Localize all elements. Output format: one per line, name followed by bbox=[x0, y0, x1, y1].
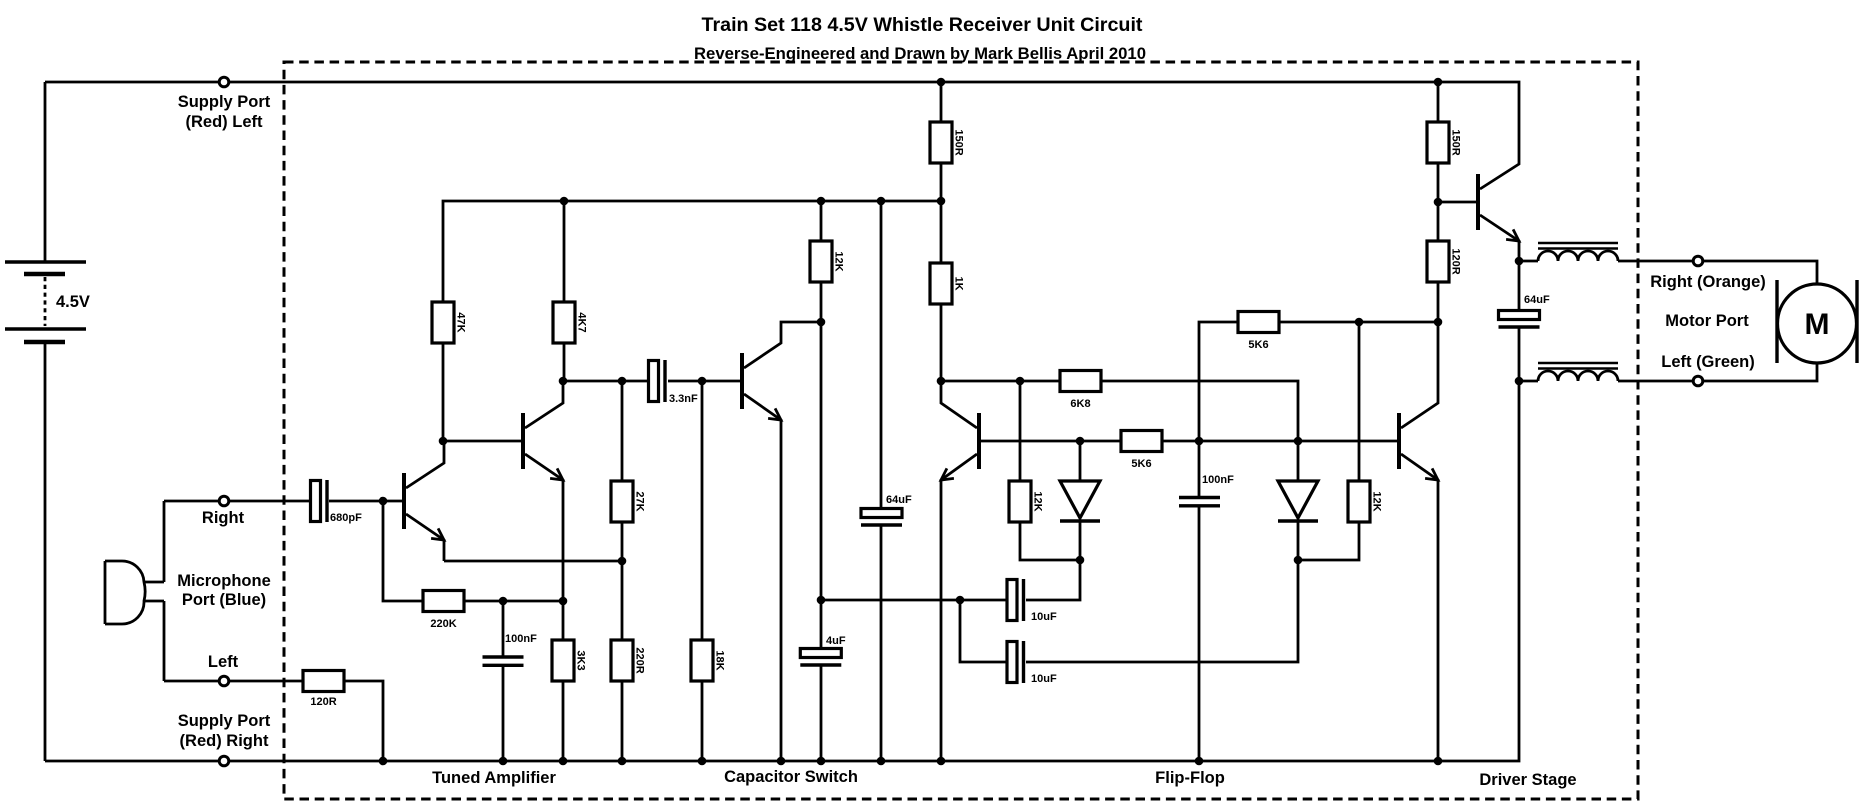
svg-text:18K: 18K bbox=[714, 650, 726, 670]
junction bbox=[698, 377, 707, 386]
junction bbox=[817, 596, 826, 605]
svg-text:Left: Left bbox=[208, 653, 239, 671]
wire bbox=[940, 304, 943, 381]
svg-text:10uF: 10uF bbox=[1031, 673, 1057, 685]
wire bbox=[1026, 521, 1080, 600]
svg-text:4.5V: 4.5V bbox=[56, 293, 90, 311]
junction bbox=[1515, 257, 1524, 266]
svg-text:Left (Green): Left (Green) bbox=[1661, 353, 1755, 371]
svg-text:Right (Orange): Right (Orange) bbox=[1650, 273, 1766, 291]
wire bbox=[44, 82, 47, 262]
resistor R6 220K bbox=[423, 591, 464, 631]
wire bbox=[163, 501, 166, 582]
wire bbox=[1618, 363, 1817, 381]
svg-text:10uF: 10uF bbox=[1031, 611, 1057, 623]
wire bbox=[820, 282, 823, 322]
wire bbox=[701, 381, 704, 640]
wire bbox=[820, 664, 823, 761]
wire bbox=[1437, 281, 1440, 322]
terminal Motor Left (Green) bbox=[1693, 376, 1703, 386]
junction bbox=[1434, 78, 1443, 87]
resistor R15 5K6 bbox=[1238, 312, 1279, 352]
svg-text:64uF: 64uF bbox=[886, 494, 912, 506]
capacitor C6 10uF bbox=[1007, 579, 1057, 623]
svg-text:27K: 27K bbox=[634, 491, 646, 511]
wire bbox=[563, 201, 566, 302]
terminal Microphone Right bbox=[219, 496, 229, 506]
wire bbox=[1198, 505, 1201, 761]
wire bbox=[1618, 261, 1817, 284]
wire bbox=[45, 381, 1519, 761]
junction bbox=[1076, 556, 1085, 565]
wire bbox=[940, 162, 943, 263]
wire bbox=[979, 440, 1121, 443]
wire bbox=[820, 322, 823, 648]
capacitor C9 64uF bbox=[1499, 294, 1550, 327]
wire bbox=[1162, 440, 1399, 443]
capacitor C5 64uF bbox=[861, 494, 912, 525]
svg-text:12K: 12K bbox=[1032, 491, 1044, 511]
junction bbox=[499, 757, 508, 766]
transistor Q4 bbox=[941, 381, 979, 761]
junction bbox=[877, 757, 886, 766]
svg-text:6K8: 6K8 bbox=[1070, 398, 1090, 410]
wire bbox=[1297, 441, 1300, 481]
resistor R18 120R bbox=[1427, 241, 1462, 282]
wire bbox=[443, 201, 941, 302]
junction bbox=[1294, 556, 1303, 565]
junction bbox=[1515, 377, 1524, 386]
wire bbox=[45, 82, 1519, 163]
wire bbox=[383, 501, 423, 601]
junction bbox=[937, 757, 946, 766]
terminal Supply Port (Red) Right bbox=[219, 756, 229, 766]
capacitor C1 680pF bbox=[311, 480, 363, 524]
wire bbox=[1199, 322, 1238, 497]
junction bbox=[1076, 437, 1085, 446]
wire bbox=[1079, 441, 1082, 481]
wire bbox=[442, 343, 445, 441]
terminal Microphone Left bbox=[219, 676, 229, 686]
terminal Supply Port (Red) Left bbox=[219, 77, 229, 87]
svg-text:100nF: 100nF bbox=[505, 633, 537, 645]
wire bbox=[164, 500, 310, 503]
wire bbox=[941, 380, 1060, 383]
svg-text:4uF: 4uF bbox=[826, 635, 846, 647]
junction bbox=[499, 597, 508, 606]
capacitor C7 10uF bbox=[1007, 641, 1057, 685]
junction bbox=[559, 597, 568, 606]
battery 4.5V bbox=[5, 262, 90, 342]
junction bbox=[817, 757, 826, 766]
wire bbox=[563, 343, 566, 381]
junction bbox=[618, 377, 627, 386]
wire bbox=[562, 601, 565, 640]
capacitor C8 100nF bbox=[1179, 474, 1234, 506]
svg-text:Flip-Flop: Flip-Flop bbox=[1155, 769, 1225, 787]
wire bbox=[1518, 261, 1521, 310]
wire bbox=[44, 342, 47, 761]
resistor R5 220R bbox=[611, 640, 646, 681]
microphone bbox=[105, 561, 164, 624]
wire bbox=[464, 600, 563, 603]
resistor R16 12K bbox=[1348, 481, 1383, 522]
resistor R8 18K bbox=[691, 640, 726, 681]
wire bbox=[1358, 322, 1361, 481]
capacitor C2 100nF bbox=[483, 633, 538, 665]
wire bbox=[668, 380, 742, 383]
resistor R13 12K bbox=[1009, 481, 1044, 522]
wire bbox=[1019, 381, 1022, 481]
wire bbox=[444, 560, 622, 563]
wire bbox=[344, 681, 383, 761]
wire bbox=[1298, 521, 1359, 560]
wire bbox=[940, 82, 943, 122]
wire bbox=[621, 522, 624, 640]
svg-text:Train Set 118 4.5V Whistle Rec: Train Set 118 4.5V Whistle Receiver Unit… bbox=[702, 14, 1143, 36]
wire bbox=[820, 201, 823, 241]
wire bbox=[1518, 326, 1521, 381]
junction bbox=[560, 197, 569, 206]
junction bbox=[937, 197, 946, 206]
wire bbox=[502, 601, 505, 656]
svg-text:Motor Port: Motor Port bbox=[1665, 312, 1749, 330]
diode D1 bbox=[1060, 481, 1100, 521]
junction bbox=[618, 557, 627, 566]
wire bbox=[1020, 521, 1080, 560]
wire bbox=[960, 600, 1006, 662]
svg-text:(Red) Right: (Red) Right bbox=[180, 732, 269, 750]
wire bbox=[329, 500, 404, 503]
svg-text:47K: 47K bbox=[455, 312, 467, 332]
transistor Q3 bbox=[742, 322, 821, 761]
svg-text:3.3nF: 3.3nF bbox=[669, 393, 698, 405]
junction bbox=[379, 757, 388, 766]
junction bbox=[1294, 437, 1303, 446]
svg-text:100nF: 100nF bbox=[1202, 474, 1234, 486]
svg-text:3K3: 3K3 bbox=[575, 650, 587, 670]
junction bbox=[937, 377, 946, 386]
wire bbox=[1026, 521, 1298, 662]
svg-text:Reverse-Engineered and Drawn b: Reverse-Engineered and Drawn by Mark Bel… bbox=[694, 44, 1146, 63]
svg-text:220R: 220R bbox=[634, 647, 646, 673]
junction bbox=[1355, 318, 1364, 327]
resistor R14 5K6 bbox=[1121, 431, 1162, 471]
resistor R1 47K bbox=[432, 302, 467, 343]
junction bbox=[877, 197, 886, 206]
svg-text:120R: 120R bbox=[310, 696, 336, 708]
terminal Motor Right (Orange) bbox=[1693, 256, 1703, 266]
junction bbox=[937, 78, 946, 87]
svg-text:12K: 12K bbox=[833, 251, 845, 271]
svg-text:5K6: 5K6 bbox=[1248, 339, 1268, 351]
svg-text:680pF: 680pF bbox=[330, 512, 362, 524]
svg-text:12K: 12K bbox=[1371, 491, 1383, 511]
svg-text:Capacitor Switch: Capacitor Switch bbox=[724, 768, 858, 786]
resistor R17 150R bbox=[1427, 122, 1462, 163]
junction bbox=[817, 197, 826, 206]
inductor L2 bbox=[1538, 363, 1618, 381]
svg-text:Driver Stage: Driver Stage bbox=[1479, 771, 1576, 789]
wire bbox=[1437, 82, 1440, 122]
transistor Q1 bbox=[404, 441, 444, 561]
transistor Q6 bbox=[1478, 163, 1519, 261]
junction bbox=[1195, 437, 1204, 446]
transistor Q2 bbox=[523, 381, 563, 601]
resistor R9 12K bbox=[810, 241, 845, 282]
wire bbox=[701, 682, 704, 761]
inductor L1 bbox=[1538, 243, 1618, 261]
dashed unit boundary bbox=[284, 62, 1638, 799]
wire bbox=[564, 380, 649, 383]
junction bbox=[956, 596, 965, 605]
svg-text:M: M bbox=[1805, 308, 1830, 341]
wire bbox=[562, 681, 565, 761]
resistor R10 150R bbox=[930, 122, 965, 163]
wire bbox=[502, 665, 505, 761]
junction bbox=[618, 757, 627, 766]
wire bbox=[880, 201, 883, 508]
resistor R7 120R bbox=[303, 671, 344, 709]
svg-text:(Red) Left: (Red) Left bbox=[186, 113, 263, 131]
motor M bbox=[1777, 280, 1857, 363]
svg-text:120R: 120R bbox=[1450, 248, 1462, 274]
svg-text:Microphone: Microphone bbox=[177, 572, 271, 590]
junction bbox=[1195, 757, 1204, 766]
svg-text:Tuned Amplifier: Tuned Amplifier bbox=[432, 769, 556, 787]
resistor R4 3K3 bbox=[552, 640, 587, 681]
wire bbox=[880, 524, 883, 761]
svg-text:150R: 150R bbox=[953, 129, 965, 155]
junction bbox=[698, 757, 707, 766]
wire bbox=[621, 381, 624, 481]
junction bbox=[1016, 377, 1025, 386]
resistor R11 1K bbox=[930, 263, 965, 304]
wire bbox=[164, 680, 303, 683]
wire bbox=[163, 601, 166, 681]
capacitor C3 3.3nF bbox=[649, 360, 699, 405]
wire bbox=[1101, 381, 1298, 441]
wire bbox=[1438, 201, 1478, 204]
svg-text:Supply Port: Supply Port bbox=[178, 93, 271, 111]
junction bbox=[559, 757, 568, 766]
junction bbox=[379, 497, 388, 506]
wire bbox=[1437, 162, 1440, 241]
junction bbox=[777, 757, 786, 766]
junction bbox=[559, 377, 568, 386]
junction bbox=[1434, 198, 1443, 207]
junction bbox=[439, 437, 448, 446]
junction bbox=[1434, 318, 1443, 327]
svg-text:150R: 150R bbox=[1450, 129, 1462, 155]
wire bbox=[1279, 321, 1438, 324]
svg-text:5K6: 5K6 bbox=[1131, 458, 1151, 470]
svg-text:Right: Right bbox=[202, 509, 245, 527]
svg-text:220K: 220K bbox=[430, 618, 456, 630]
wire bbox=[821, 599, 1006, 602]
svg-text:Port (Blue): Port (Blue) bbox=[182, 591, 266, 609]
svg-text:1K: 1K bbox=[953, 276, 965, 290]
wire bbox=[1519, 380, 1538, 383]
wire bbox=[443, 440, 523, 443]
resistor R2 4K7 bbox=[553, 302, 588, 343]
junction bbox=[1434, 757, 1443, 766]
svg-text:4K7: 4K7 bbox=[576, 312, 588, 332]
junction bbox=[817, 318, 826, 327]
svg-text:64uF: 64uF bbox=[1524, 294, 1550, 306]
diode D2 bbox=[1278, 481, 1318, 521]
wire bbox=[621, 681, 624, 761]
resistor R12 6K8 bbox=[1060, 371, 1101, 411]
capacitor C4 4uF bbox=[800, 635, 846, 665]
resistor R3 27K bbox=[611, 481, 646, 522]
wire bbox=[1519, 260, 1538, 263]
transistor Q5 bbox=[1399, 322, 1438, 761]
svg-text:Supply Port: Supply Port bbox=[178, 712, 271, 730]
